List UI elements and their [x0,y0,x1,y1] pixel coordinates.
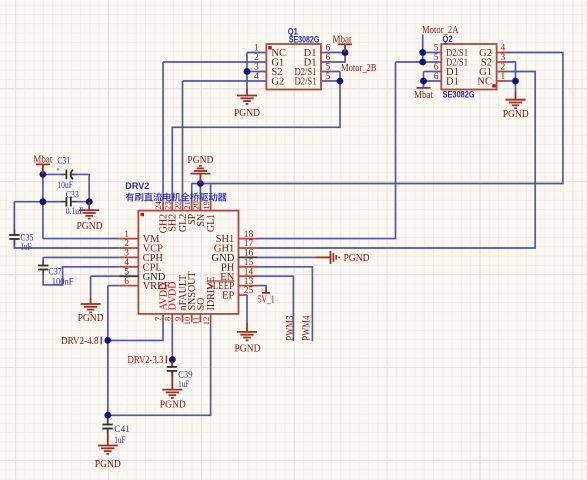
svg-text:20: 20 [191,201,201,210]
svg-text:G2: G2 [271,77,284,88]
svg-text:1uF: 1uF [114,436,125,446]
svg-text:Motor_2A: Motor_2A [422,25,459,36]
svg-text:C31: C31 [57,157,70,167]
svg-text:C33: C33 [66,190,79,200]
svg-text:6: 6 [326,53,331,63]
svg-text:Mbat: Mbat [414,90,433,101]
svg-text:NC: NC [477,77,492,88]
svg-text:2: 2 [254,53,259,63]
svg-text:PGND: PGND [234,108,260,119]
svg-text:SE3082G: SE3082G [443,90,475,100]
svg-text:PGND: PGND [77,221,103,232]
svg-text:PGND: PGND [503,109,529,120]
svg-text:PGND: PGND [95,459,121,470]
svg-text:3: 3 [254,62,259,72]
svg-text:Motor_2B: Motor_2B [341,63,377,74]
svg-text:6: 6 [434,72,439,82]
svg-text:8: 8 [163,317,173,321]
svg-text:C39: C39 [178,370,193,380]
svg-text:100nF: 100nF [52,277,74,287]
svg-text:25: 25 [244,286,254,296]
svg-text:1uF: 1uF [20,243,31,253]
svg-text:EP: EP [222,291,234,302]
svg-text:12: 12 [201,317,211,326]
svg-text:PGND: PGND [160,399,186,410]
svg-text:19: 19 [201,201,211,210]
svg-text:6: 6 [326,43,331,53]
svg-text:PWM4: PWM4 [302,315,313,341]
svg-text:C41: C41 [114,425,130,435]
svg-text:D1: D1 [446,77,459,88]
svg-text:11: 11 [191,317,201,325]
svg-text:GL1: GL1 [206,214,217,232]
svg-text:5: 5 [326,62,331,72]
svg-text:PGND: PGND [78,313,104,324]
svg-text:1: 1 [254,43,259,53]
svg-text:PGND: PGND [187,155,213,166]
svg-text:DRV2-4.8: DRV2-4.8 [61,336,99,347]
svg-text:PWM3: PWM3 [285,316,296,341]
svg-text:5V_1: 5V_1 [258,295,275,306]
svg-text:0.1uF: 0.1uF [66,207,84,217]
svg-text:PGND: PGND [235,344,261,355]
svg-text:5: 5 [326,72,331,82]
svg-text:DRV2-3.3: DRV2-3.3 [128,355,164,366]
svg-text:IDRIVE: IDRIVE [206,277,217,311]
svg-text:D2/S1: D2/S1 [295,77,317,88]
svg-text:SE3082G: SE3082G [289,35,320,45]
svg-text:6: 6 [124,277,129,287]
svg-text:4: 4 [254,72,259,82]
svg-text:1uF: 1uF [178,380,189,390]
svg-text:DRV2: DRV2 [125,181,149,191]
svg-text:C37: C37 [49,267,62,277]
svg-text:5: 5 [434,53,439,63]
svg-text:23: 23 [163,201,173,210]
svg-text:6: 6 [434,62,439,72]
svg-text:5: 5 [434,43,439,53]
svg-text:PGND: PGND [344,253,370,264]
